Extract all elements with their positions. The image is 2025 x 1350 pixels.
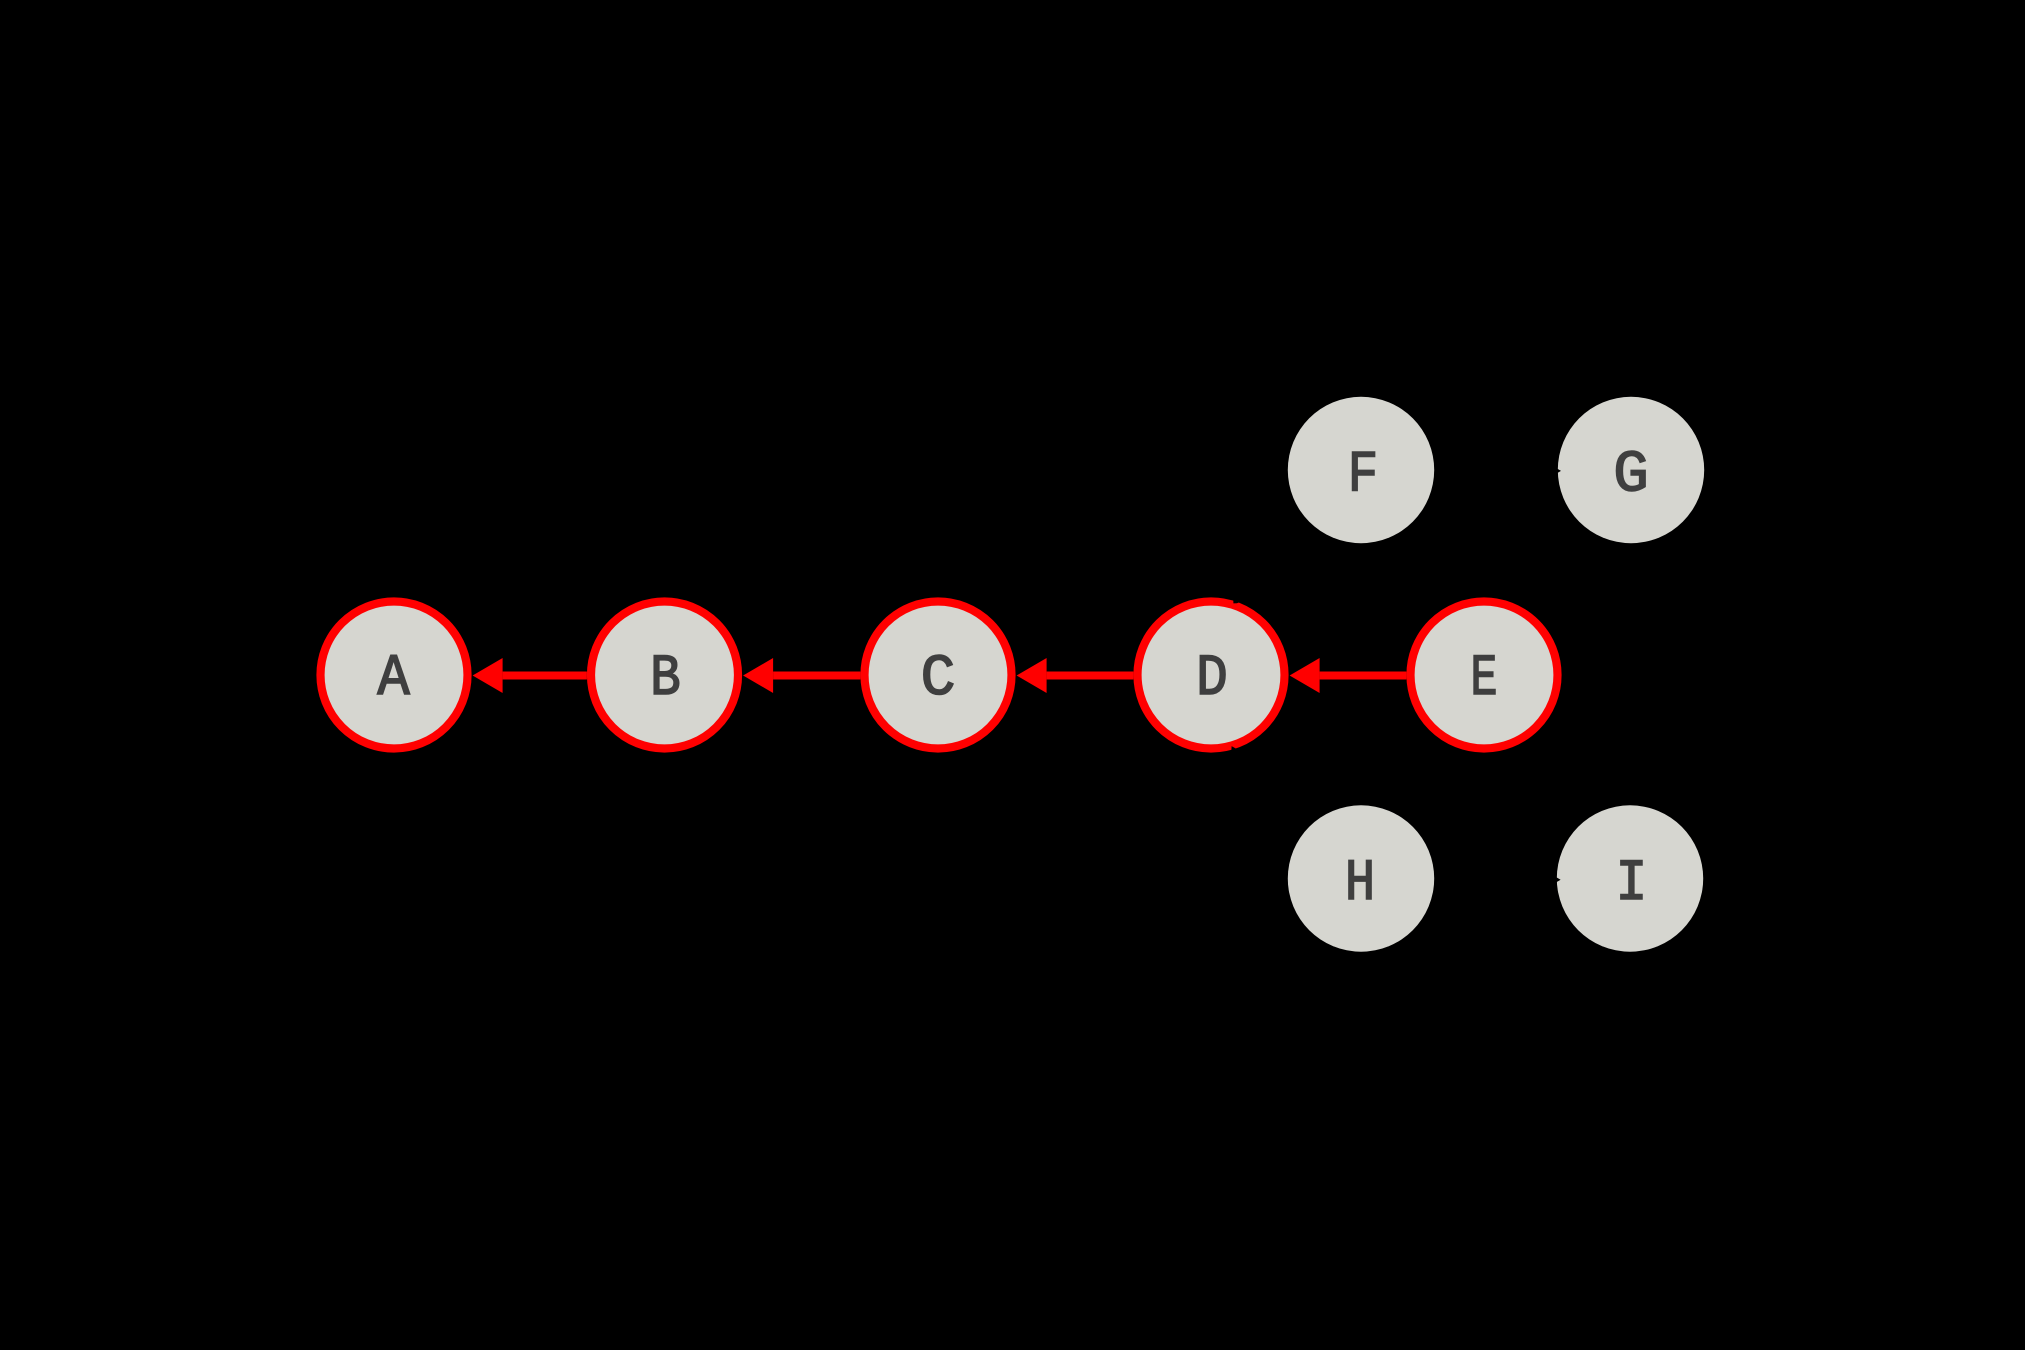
node C (red ring) (865, 602, 1012, 749)
node A (red ring) (321, 602, 468, 749)
svg-text:A: A (377, 645, 410, 711)
node G (1558, 397, 1704, 543)
svg-text:D: D (1196, 646, 1228, 712)
red arrow C->B (743, 658, 860, 693)
svg-text:F: F (1348, 444, 1379, 509)
red arrow B->A (473, 658, 587, 693)
red arrow D->C (1017, 658, 1134, 693)
node E (red ring) (1411, 602, 1558, 749)
node D (red ring) (1138, 602, 1285, 749)
node I (1557, 805, 1703, 951)
svg-text:C: C (921, 647, 956, 712)
red arrow E->D (1290, 658, 1407, 693)
svg-text:E: E (1470, 646, 1497, 712)
svg-text:G: G (1613, 442, 1649, 508)
notch wire into D from lower right (1231, 746, 1242, 757)
node B (red ring) (591, 602, 738, 749)
node F (1288, 397, 1434, 543)
notch wire into D from upper right (1233, 595, 1246, 603)
notch arrowhead into I (1549, 873, 1561, 887)
node H (1288, 805, 1434, 951)
svg-text:B: B (650, 647, 681, 712)
svg-text:I: I (1616, 851, 1648, 917)
notch arrowhead into G (1549, 464, 1561, 478)
svg-text:H: H (1345, 852, 1375, 917)
